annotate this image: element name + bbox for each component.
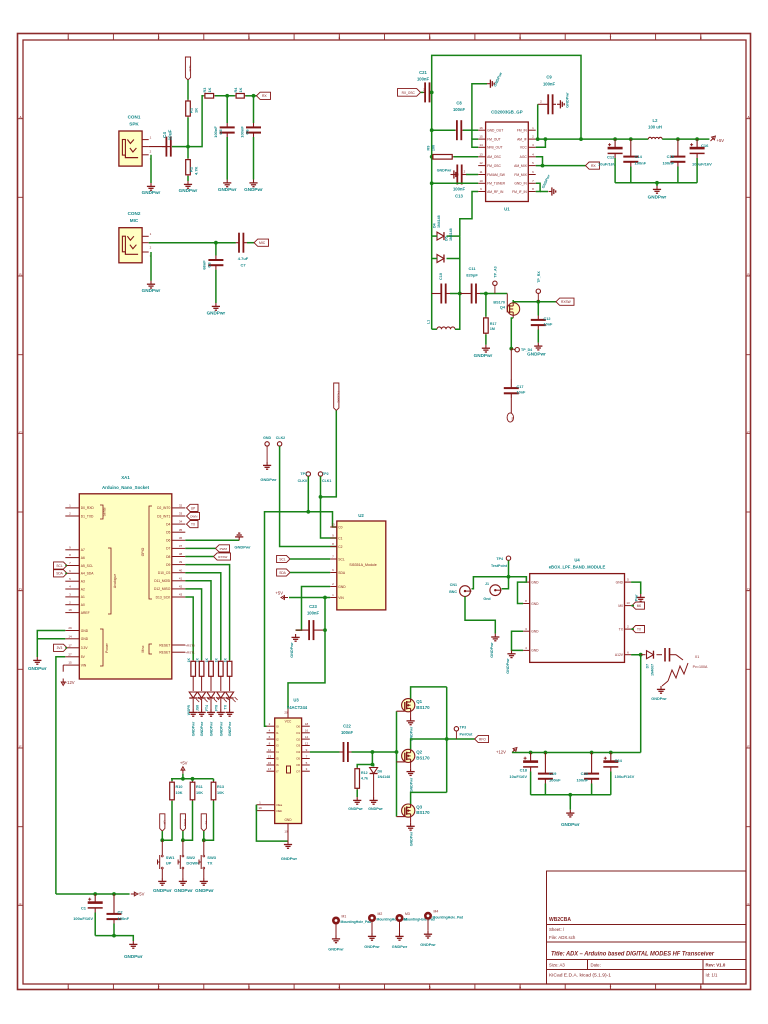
svg-text:WSPR: WSPR: [187, 704, 191, 715]
svg-text:GPIO: GPIO: [141, 547, 145, 556]
ground M4: [424, 931, 432, 938]
svg-text:RX: RX: [591, 164, 596, 168]
pin U4 left GND: [523, 649, 530, 651]
svg-text:12: 12: [479, 161, 483, 165]
resistor R1 1K: [187, 100, 189, 101]
ground C5: [223, 180, 231, 187]
wire D7 to PWM: [185, 547, 215, 549]
wire SDA to U2: [290, 572, 330, 574]
wire U4 right GND: [631, 582, 641, 594]
svg-text:2: 2: [158, 36, 160, 40]
svg-text:6: 6: [519, 985, 521, 989]
svg-text:4.7uF: 4.7uF: [238, 256, 249, 261]
wire M3 to ground: [399, 921, 401, 933]
global label UP vertical: [160, 814, 165, 831]
resistor R11 10K: [192, 781, 194, 782]
pin U4 right A12V: [625, 654, 632, 656]
ground SW2: [179, 878, 187, 885]
svg-text:Title: ADX – Arduino based DIG: Title: ADX – Arduino based DIGITAL MODES…: [551, 951, 714, 958]
ground C9 right: [557, 100, 564, 108]
pin XA1 D6: [172, 539, 186, 541]
wire C12 to ground: [537, 330, 539, 343]
svg-text:39: 39: [179, 560, 183, 564]
pin XA1 GND 14: [65, 638, 79, 640]
ground D6: [370, 797, 378, 804]
wire TP4 to RF input: [508, 560, 510, 576]
svg-text:10: 10: [284, 829, 288, 833]
svg-text:SPK: SPK: [129, 122, 139, 127]
wire FM_TUNER row: [432, 182, 479, 184]
svg-text:4.7k: 4.7k: [361, 777, 368, 781]
wire AM_IF rail: [536, 138, 649, 140]
svg-text:DOWN: DOWN: [186, 861, 199, 866]
wire D12_MISO to LED column: [185, 589, 201, 660]
svg-text:SDA: SDA: [56, 572, 63, 576]
pin U3 input I4: [267, 751, 275, 753]
global label TX vertical: [201, 814, 206, 831]
pin 1 CON1: [142, 139, 149, 141]
connector CON2 MIC: [119, 228, 142, 263]
wire R17 to ground: [485, 334, 487, 344]
wire CON2 sleeve to ground: [150, 252, 152, 281]
resistor R3 1K: [204, 95, 205, 97]
svg-text:GNDPwr: GNDPwr: [364, 945, 380, 949]
svg-text:GNDPwr: GNDPwr: [566, 92, 570, 108]
svg-text:R17: R17: [490, 322, 497, 326]
svg-text:GNDPwr: GNDPwr: [420, 943, 436, 947]
svg-text:1N4007: 1N4007: [651, 664, 655, 676]
svg-text:U3: U3: [293, 698, 299, 703]
global label RXSW: [556, 298, 574, 305]
pin U3 input I7: [267, 770, 275, 772]
wire C17 to KEY oval: [510, 398, 512, 413]
wire bus to ground 12V: [569, 795, 571, 810]
pin U1.4 AGC: [528, 156, 535, 158]
module U3 74ACT244 body: [275, 718, 302, 824]
wire R10 to SW1 node: [162, 801, 172, 840]
svg-text:C8: C8: [456, 101, 462, 106]
pin U4 right TX: [625, 628, 632, 630]
wire RF line to U4 pin1: [509, 577, 527, 582]
wire 5V pin to left rail: [56, 657, 65, 894]
svg-text:A6: A6: [81, 556, 85, 560]
wire C15 down: [677, 167, 679, 183]
wire CON2 tip to C7: [149, 242, 236, 244]
LED WSPR: [189, 692, 197, 698]
test point TP_RX: [536, 289, 540, 293]
svg-text:TX: TX: [204, 821, 208, 825]
connector CN1 BNC: [460, 586, 471, 597]
svg-text:F: F: [747, 902, 749, 906]
svg-text:1K: 1K: [239, 87, 243, 92]
svg-text:34: 34: [179, 520, 183, 524]
svg-text:TP_A3: TP_A3: [494, 266, 498, 277]
svg-text:100uF/16V: 100uF/16V: [615, 774, 635, 779]
svg-text:RESET: RESET: [159, 651, 170, 655]
wire D11_MOSI to LED column: [185, 581, 211, 660]
pin U4 right GND: [625, 581, 632, 583]
svg-text:CLK2: CLK2: [276, 436, 285, 440]
svg-text:GNDPwr: GNDPwr: [392, 945, 408, 949]
svg-text:RXSW: RXSW: [561, 300, 571, 304]
svg-text:BS170: BS170: [416, 756, 430, 761]
pin XA1 A3: [65, 580, 79, 582]
svg-text:FT4: FT4: [205, 705, 209, 711]
text Power bracket: [100, 629, 103, 666]
svg-text:A2: A2: [81, 587, 85, 591]
svg-text:3: 3: [248, 36, 250, 40]
svg-text:20: 20: [284, 710, 288, 714]
svg-text:BS170: BS170: [493, 301, 505, 305]
svg-text:10: 10: [479, 179, 483, 183]
thermistor X1 zigzag: [668, 663, 688, 681]
test point TP5 GND: [265, 442, 269, 446]
svg-text:D4: D4: [433, 223, 437, 228]
svg-text:CLK1: CLK1: [322, 479, 331, 483]
capacitor C3 68nF: [208, 259, 223, 261]
svg-text:C11: C11: [468, 266, 476, 271]
svg-text:Analogue: Analogue: [113, 574, 117, 588]
svg-text:68nF: 68nF: [202, 260, 207, 270]
wire oscillator verticals: [431, 236, 433, 258]
svg-text:DWN: DWN: [190, 514, 197, 518]
LED FT4: [207, 692, 215, 698]
pin XA1 VIN 15: [65, 664, 79, 666]
pin U2 SCL: [330, 558, 337, 560]
svg-text:Serial: Serial: [103, 507, 107, 516]
svg-text:100nF: 100nF: [213, 126, 218, 138]
svg-text:J1: J1: [485, 582, 489, 586]
wire RXSW junction to C12b: [537, 302, 539, 316]
svg-text:17: 17: [68, 643, 72, 647]
capacitor C20 100nF: [584, 773, 599, 775]
module XA1 Arduino_Nano_Socket body: [79, 494, 172, 679]
svg-text:GNDPwr: GNDPwr: [124, 954, 143, 959]
svg-text:+5V: +5V: [275, 591, 283, 596]
svg-text:U2: U2: [358, 513, 364, 518]
svg-text:C17: C17: [517, 385, 524, 389]
power +5V switches: [181, 767, 185, 774]
svg-text:11: 11: [268, 748, 271, 752]
svg-text:GNDPwr: GNDPwr: [207, 311, 226, 316]
svg-text:C23: C23: [309, 604, 317, 609]
wire C12 down: [614, 158, 616, 183]
ground U4 right: [637, 594, 645, 601]
svg-text:GNDPwr: GNDPwr: [410, 777, 414, 792]
svg-text:BS170: BS170: [416, 810, 430, 815]
pin XA1 A2: [65, 588, 79, 590]
pin XA1 A7: [65, 549, 79, 551]
svg-text:BS170: BS170: [416, 705, 430, 710]
svg-text:100nF: 100nF: [307, 611, 320, 616]
svg-text:TestPoint: TestPoint: [491, 564, 508, 568]
wire RF filter ground bus: [615, 182, 697, 184]
svg-text:GNDPwr: GNDPwr: [561, 822, 580, 827]
switch SW2 DOWN: [182, 840, 184, 851]
svg-text:L2: L2: [653, 118, 659, 123]
svg-text:GNDPwr: GNDPwr: [474, 353, 493, 358]
resistor R12 4.7K: [356, 768, 358, 769]
pin U1.3 VCC: [528, 146, 535, 148]
svg-text:D6: D6: [378, 770, 383, 774]
svg-text:O3: O3: [296, 744, 300, 748]
svg-text:14: 14: [479, 143, 483, 147]
pin XA1 D9: [172, 564, 186, 566]
svg-text:32: 32: [179, 504, 183, 508]
pin U3 output O1: [302, 732, 310, 734]
svg-text:GND_OUT: GND_OUT: [487, 129, 503, 133]
pin XA1 D3_INT1: [172, 515, 186, 517]
wire VCC to rail: [536, 139, 546, 147]
svg-text:18: 18: [68, 608, 72, 612]
global label RX: [257, 92, 271, 99]
pin U1.9 AM_RF_IN: [478, 191, 485, 193]
pin U1.12 FM_OSC: [478, 165, 485, 167]
svg-text:GNDPwr: GNDPwr: [648, 195, 667, 200]
wire Q3 drain: [411, 792, 447, 804]
wire left rail to bottom bus: [431, 259, 433, 330]
svg-text:35: 35: [179, 528, 183, 532]
wire SPK label to R1: [187, 80, 189, 100]
svg-text:AM_MIX: AM_MIX: [514, 164, 527, 168]
capacitor C5 100nF: [220, 126, 235, 128]
pin U1.7 GND_IN: [528, 182, 535, 184]
svg-text:O2: O2: [296, 737, 300, 741]
capacitor C16 100uF/16V polarized: [690, 147, 705, 150]
wire LED to ground JS8: [201, 699, 203, 709]
svg-text:C21: C21: [419, 70, 427, 75]
inductor L1 bottom bus: [432, 328, 437, 330]
pin XA1 D0_RXD: [65, 507, 79, 509]
node junction C6: [252, 94, 256, 98]
svg-text:DWN: DWN: [183, 819, 187, 826]
svg-text:13: 13: [268, 754, 272, 758]
wire OE pins to ground bus: [256, 805, 288, 841]
svg-text:100nF: 100nF: [118, 916, 130, 921]
resistor R10 10K: [171, 781, 173, 782]
wire TX_OSC down: [321, 411, 337, 497]
svg-text:C9: C9: [546, 75, 552, 80]
wire U3 output to C22: [310, 751, 340, 753]
global label SCL U2: [277, 555, 290, 562]
svg-text:I7: I7: [276, 769, 279, 773]
wire L2 to +5V arrow: [662, 138, 709, 140]
svg-text:C20: C20: [581, 771, 589, 776]
wire C4 to R1 R2 junction: [172, 146, 188, 148]
wire SW3 to ground: [203, 873, 205, 878]
svg-text:SPK: SPK: [188, 65, 192, 71]
svg-text:UP: UP: [166, 861, 172, 866]
svg-text:Pv=100A: Pv=100A: [693, 665, 708, 669]
resistor R7 1K LED column: [210, 660, 212, 661]
svg-text:C2: C2: [338, 545, 342, 549]
svg-text:+12V: +12V: [496, 750, 506, 755]
pin U3 output O5: [302, 758, 310, 760]
pin U3 OEa: [256, 804, 274, 806]
transistor Q2 BS170: [402, 749, 415, 762]
svg-text:O7: O7: [296, 769, 300, 773]
svg-text:4: 4: [338, 36, 340, 40]
svg-text:RX: RX: [511, 417, 515, 421]
svg-text:8: 8: [700, 36, 702, 40]
ground LED TX: [226, 709, 234, 716]
svg-text:SDA: SDA: [338, 571, 346, 575]
svg-text:FM_IF_IN: FM_IF_IN: [512, 190, 527, 194]
svg-text:Date:: Date:: [591, 962, 601, 967]
wire C6 to ground: [253, 137, 255, 180]
mounting hole M3: [396, 914, 404, 922]
pin XA1 D11_MOSI: [172, 580, 186, 582]
wire SCL to U2: [290, 558, 330, 560]
wire Q2 drain to RFO line: [411, 739, 447, 749]
wire TP6 to U2 CLK2: [280, 446, 337, 546]
svg-text:GNDPwr: GNDPwr: [348, 807, 363, 811]
pin U2 C1: [330, 537, 337, 539]
text Analogue bracket: [108, 548, 111, 614]
svg-text:A3: A3: [81, 580, 85, 584]
capacitor C18 10uF/16V polarized: [523, 760, 538, 763]
wire 12V filter ground bus: [531, 794, 611, 796]
wire TP1 to CLK0 bus: [307, 476, 309, 512]
svg-text:18: 18: [305, 722, 309, 726]
switch SW3 TX: [203, 840, 205, 851]
svg-text:O1: O1: [296, 731, 300, 735]
wire D6 to ground flag: [185, 539, 239, 541]
wire RFO line: [447, 738, 475, 740]
wire AM_RF_IN staircase: [460, 192, 478, 237]
svg-text:R9: R9: [426, 146, 430, 151]
pin U3 output O2: [302, 738, 310, 740]
wire LED to ground WSPR: [192, 699, 194, 709]
wire R9 to AM_OSC pin: [453, 156, 478, 158]
wire gate bus vertical: [396, 711, 398, 816]
wire R13 to SW3 node: [204, 801, 214, 840]
svg-text:M0: M0: [618, 604, 623, 608]
svg-text:10uF/16V: 10uF/16V: [598, 162, 616, 167]
svg-text:SW1: SW1: [166, 855, 175, 860]
svg-text:Q4: Q4: [500, 306, 506, 310]
svg-text:NFB_OUT: NFB_OUT: [487, 146, 502, 150]
ground LED JS8: [198, 709, 206, 716]
wire J1 to RF line: [502, 577, 509, 589]
svg-text:O6: O6: [296, 763, 300, 767]
pin U3 input I0: [267, 725, 275, 727]
test point TP4: [506, 556, 510, 560]
wire R12 to ground: [356, 790, 358, 798]
wire RX_OSC to C21: [421, 91, 424, 93]
pin XA1 3.3V 17: [65, 647, 79, 649]
svg-text:D11_MOSI: D11_MOSI: [154, 579, 170, 583]
ground 12V filter: [566, 810, 574, 817]
wire C1 down: [94, 913, 96, 936]
test point TP_A3: [493, 281, 497, 285]
wire top loop to AM_IF rail: [432, 55, 581, 139]
svg-text:36: 36: [179, 536, 183, 540]
svg-text:F: F: [19, 902, 21, 906]
ground U1 right: [549, 187, 556, 195]
transistor Q1 BS170: [402, 699, 415, 712]
pin XA1 RESET1: [172, 651, 186, 653]
wire C8 to GND_OUT pin: [463, 129, 478, 131]
svg-text:U1: U1: [504, 207, 510, 212]
global label SDA left: [54, 570, 68, 577]
wire C7 to MIC label: [247, 242, 254, 244]
capacitor C17 10nF: [504, 387, 519, 389]
pin XA1 RESET0: [172, 644, 186, 646]
svg-text:GNDPwr: GNDPwr: [174, 888, 193, 893]
mounting hole M4: [424, 912, 432, 920]
wire resistor to LED TX: [229, 678, 231, 692]
ground C1 C2: [129, 941, 137, 948]
ground RF filter: [653, 186, 661, 193]
svg-text:10uF: 10uF: [168, 129, 173, 140]
svg-text:SI5351A_Module: SI5351A_Module: [349, 563, 377, 567]
ground CON1: [147, 183, 155, 190]
wire C8 row: [432, 129, 456, 131]
svg-text:M1: M1: [342, 914, 347, 918]
svg-text:+RST0: +RST0: [185, 643, 195, 647]
wire C6 branch: [253, 96, 255, 123]
resistor R17 1M: [485, 294, 487, 317]
switch SW1 UP: [161, 840, 163, 851]
node junction C5: [225, 94, 229, 98]
global label UP: [187, 504, 199, 511]
capacitor C24 100uF/16V polarized: [603, 760, 618, 763]
global label SPK vertical: [185, 57, 190, 80]
ground C12: [534, 343, 542, 350]
wire +5V down to U3 VCC: [288, 630, 325, 709]
svg-text:100nF: 100nF: [635, 161, 647, 166]
pin XA1 A4_SDA: [65, 572, 79, 574]
svg-text:I1: I1: [276, 731, 279, 735]
ground C13 left: [451, 170, 458, 178]
pin 3 CON1: [142, 154, 149, 156]
svg-text:TP1: TP1: [300, 472, 307, 476]
wire SCL to A5: [65, 565, 67, 567]
svg-text:M3: M3: [405, 912, 410, 916]
pin XA1 D2_INT0: [172, 507, 186, 509]
wire LED to ground FT4: [210, 699, 212, 709]
pin U1.15 FM_OUT: [478, 138, 485, 140]
svg-text:A0: A0: [81, 603, 85, 607]
node junction C3: [214, 241, 218, 245]
mounting hole M2: [368, 914, 376, 922]
svg-text:3.3V: 3.3V: [81, 646, 89, 650]
connector J1 antenna: [490, 585, 501, 596]
pin XA1 A5_SCL: [65, 565, 79, 567]
svg-text:VIN: VIN: [338, 596, 344, 600]
svg-text:1K: 1K: [215, 657, 219, 662]
transistor Q4 BS170 body: [507, 303, 519, 315]
capacitor C1 100uF/16V polarized: [88, 901, 103, 904]
svg-text:U4: U4: [574, 558, 580, 563]
text GPIO bracket: [149, 506, 152, 599]
pin U1.6 FM_MIX: [528, 174, 535, 176]
capacitor C2 100nF: [107, 913, 122, 915]
svg-text:SDA: SDA: [279, 571, 286, 575]
svg-text:D5: D5: [166, 531, 170, 535]
LED FT8: [217, 692, 225, 698]
svg-text:15: 15: [68, 661, 72, 665]
global label TX button: [187, 521, 199, 528]
wire U4 GND pins left: [518, 582, 524, 603]
wire pullup rail: [171, 778, 214, 780]
svg-text:TP3: TP3: [460, 726, 467, 730]
wire C3 to ground: [215, 270, 217, 303]
svg-text:1K: 1K: [223, 657, 227, 662]
capacitor C11 820pF: [471, 284, 473, 304]
svg-text:GND: GND: [616, 580, 624, 584]
